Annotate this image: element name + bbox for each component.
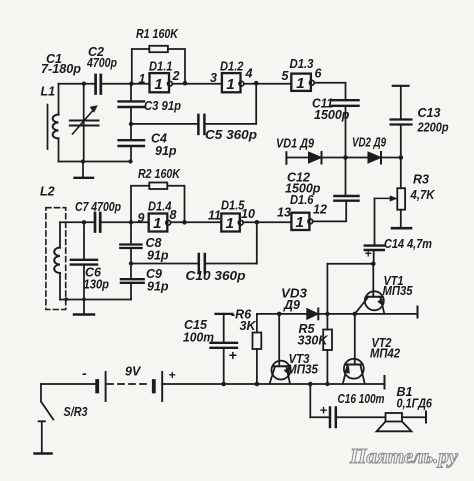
svg-text:МП42: МП42 [370,347,400,361]
svg-text:1500p: 1500p [314,108,350,122]
svg-text:1500p: 1500p [285,182,321,196]
svg-text:1: 1 [296,75,304,92]
svg-text:S/R3: S/R3 [64,405,88,419]
svg-text:1: 1 [153,215,161,232]
svg-text:C5 360p: C5 360p [205,128,257,142]
svg-text:C3 91p: C3 91p [144,99,181,113]
svg-text:100m: 100m [183,331,214,345]
svg-text:91p: 91p [147,280,169,294]
svg-text:13: 13 [277,206,291,220]
svg-text:L2: L2 [40,185,55,199]
svg-text:МП35: МП35 [287,363,319,377]
svg-text:C7 4700p: C7 4700p [75,200,121,214]
svg-text:Паятель.ру: Паятель.ру [349,444,459,468]
svg-text:+: + [320,403,328,418]
svg-text:1: 1 [139,72,146,86]
svg-text:D1.1: D1.1 [149,60,173,74]
svg-text:91p: 91p [147,249,169,263]
svg-text:D1.2: D1.2 [220,60,244,74]
svg-text:+: + [169,368,176,382]
svg-text:9V: 9V [125,365,142,379]
svg-text:D1.3: D1.3 [290,57,314,71]
svg-text:330K: 330K [298,334,329,348]
svg-text:10: 10 [241,207,255,221]
svg-text:3K: 3K [240,319,257,333]
svg-text:1: 1 [154,76,162,93]
svg-text:+: + [365,247,372,261]
svg-text:6: 6 [315,67,323,81]
svg-text:7-180p: 7-180p [41,62,81,76]
svg-text:3: 3 [210,71,217,85]
svg-text:L1: L1 [41,85,56,99]
svg-text:1: 1 [296,214,304,231]
svg-text:Д9: Д9 [283,298,300,312]
svg-text:4: 4 [245,67,253,81]
svg-text:1: 1 [226,215,234,232]
svg-text:C14 4,7m: C14 4,7m [384,237,432,251]
svg-text:-: - [82,365,87,381]
svg-text:R3: R3 [413,173,429,187]
svg-text:D1.4: D1.4 [148,200,172,214]
svg-text:12: 12 [313,203,327,217]
svg-text:4700p: 4700p [86,56,117,70]
svg-text:VD1 Д9: VD1 Д9 [276,137,314,151]
svg-text:9: 9 [138,211,145,225]
svg-text:5: 5 [282,69,290,83]
svg-text:91p: 91p [155,144,177,158]
svg-text:R2 160K: R2 160K [138,167,181,181]
svg-text:МП35: МП35 [383,284,414,298]
svg-text:R1 160K: R1 160K [136,27,179,41]
svg-text:C10 360p: C10 360p [186,269,246,283]
svg-text:8: 8 [170,208,177,222]
svg-text:VD2 Д9: VD2 Д9 [352,136,386,150]
svg-text:11: 11 [208,209,221,223]
svg-text:130p: 130p [84,278,110,292]
svg-text:C13: C13 [418,106,441,120]
svg-text:0,1ГД6: 0,1ГД6 [397,397,433,411]
svg-text:C16 100m: C16 100m [338,392,385,406]
svg-text:2: 2 [172,69,180,83]
svg-text:2200p: 2200p [417,121,449,135]
svg-text:4,7K: 4,7K [410,188,436,202]
svg-text:+: + [229,347,237,363]
svg-text:1: 1 [226,76,234,93]
